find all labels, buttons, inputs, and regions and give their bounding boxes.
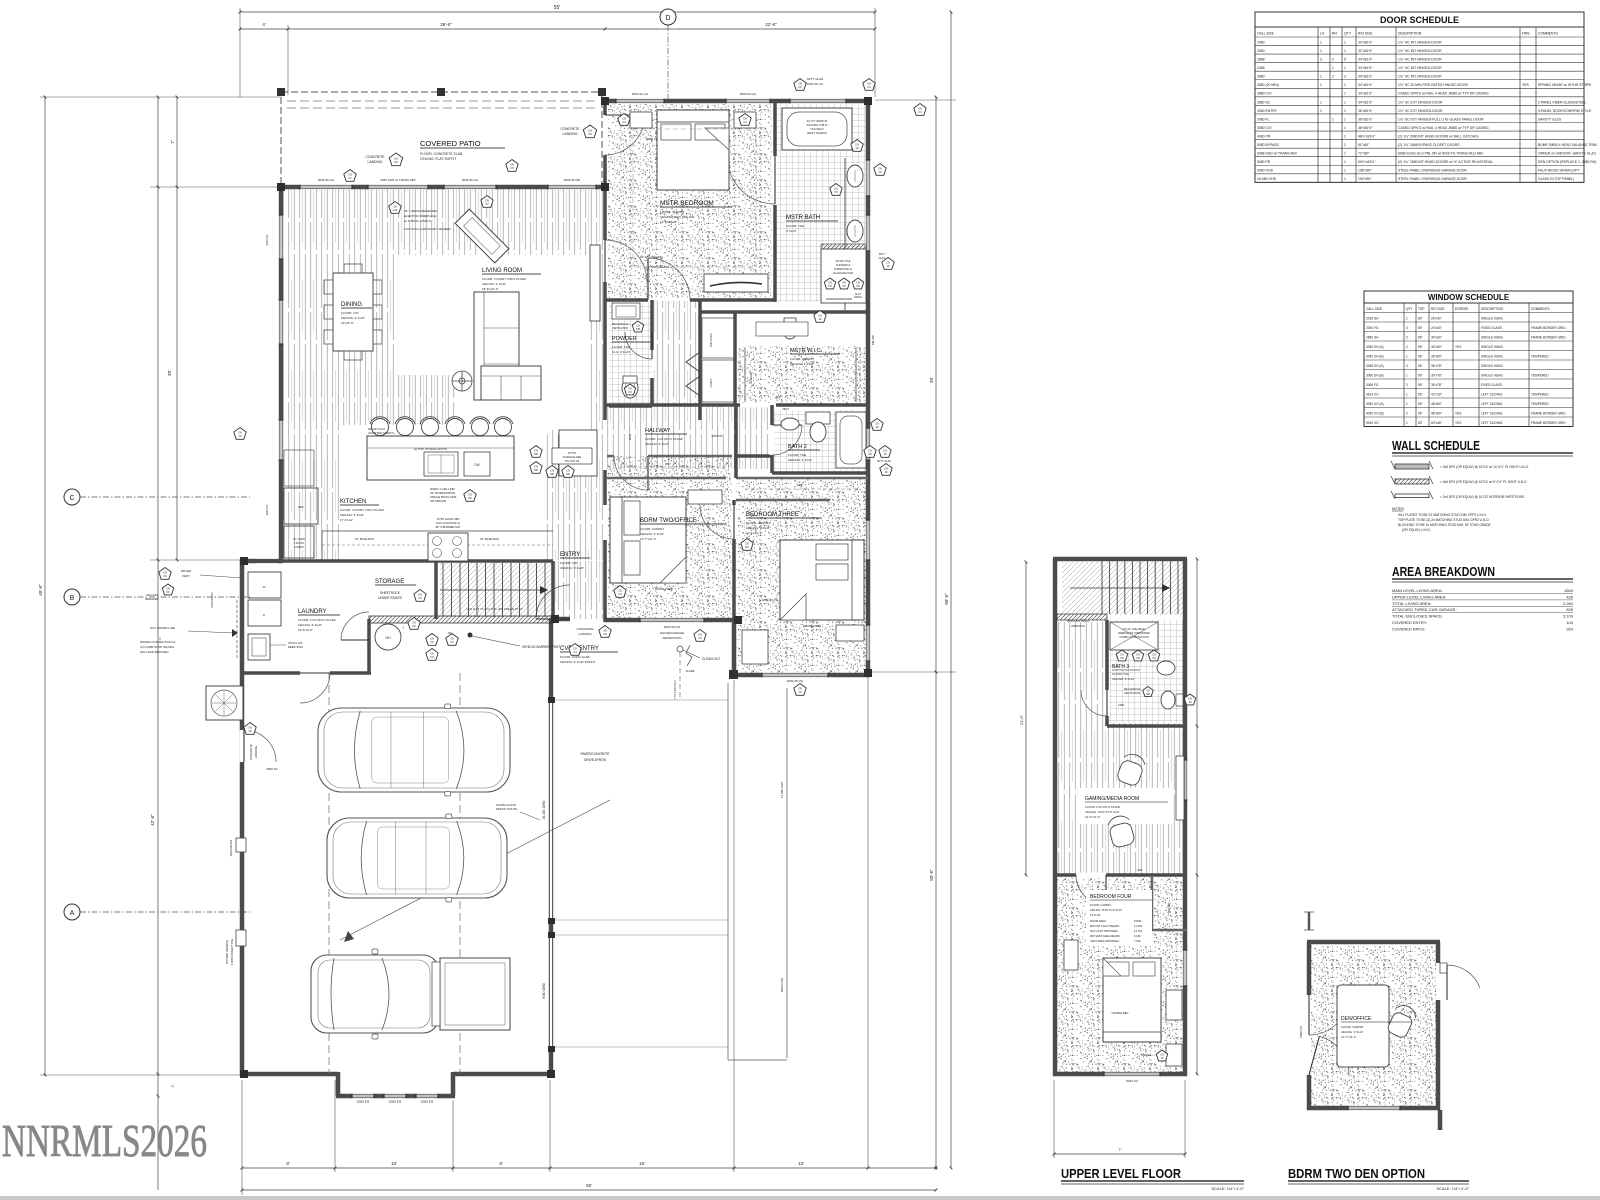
svg-text:1: 1 — [1344, 66, 1346, 70]
svg-text:80": 80" — [1418, 421, 1423, 425]
svg-text:SINGLE HUNG: SINGLE HUNG — [1481, 364, 1503, 368]
svg-text:13'-6"x6'-6": 13'-6"x6'-6" — [298, 628, 313, 632]
svg-text:EGRESS: EGRESS — [1455, 307, 1468, 311]
wall corner blocks — [240, 97, 872, 1078]
svg-text:5: 5 — [1344, 58, 1346, 62]
svg-text:MIN VENT AREA REQRD:: MIN VENT AREA REQRD: — [1090, 934, 1121, 938]
svg-text:FLOOR: TILE: FLOOR: TILE — [786, 224, 804, 228]
svg-text:LEFT SLIDING: LEFT SLIDING — [1481, 421, 1503, 425]
door powder corridor — [625, 332, 652, 359]
svg-text:FLOOR: CARPET: FLOOR: CARPET — [660, 210, 684, 214]
svg-text:UNDER STAIRS: UNDER STAIRS — [378, 596, 402, 600]
svg-text:32"x81½": 32"x81½" — [1358, 49, 1373, 53]
svg-text:1: 1 — [1406, 393, 1408, 397]
pvc water line — [150, 626, 238, 637]
interior wall: bath2 west x=772 — [770, 405, 774, 473]
svg-text:PER RC ROUTE: PER RC ROUTE — [496, 807, 517, 811]
svg-text:LIVING ROOM: LIVING ROOM — [482, 268, 522, 274]
svg-text:HOUSE/GARAGE: HOUSE/GARAGE — [660, 631, 684, 635]
dimension lines top — [239, 5, 877, 97]
svg-text:1¾" SC EXT HINGED-DOOR: 1¾" SC EXT HINGED-DOOR — [1398, 100, 1443, 104]
svg-text:SINGLE HUNG: SINGLE HUNG — [1481, 336, 1503, 340]
svg-text:96": 96" — [1418, 336, 1423, 340]
svg-text:SHOWER &: SHOWER & — [836, 263, 850, 267]
upper level: stair wall — [1057, 614, 1107, 620]
svg-text:CASED OPN'G w/ RAIL 4 HEAD JMB: CASED OPN'G w/ RAIL 4 HEAD JMBS w/ TYP D… — [1398, 92, 1489, 96]
windows 2020 FG bump-out — [352, 1094, 374, 1099]
svg-text:FRAME BORDER GRID: FRAME BORDER GRID — [1531, 336, 1566, 340]
svg-text:VNTD HOOD ABV: VNTD HOOD ABV — [436, 517, 459, 521]
svg-text:SCALE: 1/4"=1'-0": SCALE: 1/4"=1'-0" — [1211, 1186, 1244, 1191]
svg-text:3050: 3050 — [628, 433, 632, 440]
svg-text:GAS COOKTOP w/: GAS COOKTOP w/ — [436, 521, 460, 525]
upper level: exterior walls — [1053, 559, 1187, 1076]
svg-text:3066 SH (A): 3066 SH (A) — [318, 178, 335, 182]
svg-text:ORDER w/ UNDOOR -SAFETY GLZG: ORDER w/ UNDOOR -SAFETY GLZG — [1538, 152, 1596, 156]
den option: label — [1341, 1016, 1411, 1039]
svg-text:21'-6": 21'-6" — [1019, 714, 1024, 725]
svg-text:5068 SHP: 5068 SHP — [1168, 902, 1171, 913]
mstr wc label — [790, 348, 840, 366]
svg-text:CN: CN — [856, 281, 860, 285]
bedroom3 bed — [780, 540, 864, 628]
svg-text:FRAME BORDER GRID: FRAME BORDER GRID — [1531, 326, 1566, 330]
svg-text:1: 1 — [1344, 109, 1346, 113]
svg-text:CN: CN — [588, 129, 592, 133]
svg-text:BEDROOM FOUR: BEDROOM FOUR — [1090, 894, 1132, 900]
svg-text:CALL SIZE: CALL SIZE — [1366, 307, 1382, 311]
bath3 toilet — [1161, 691, 1196, 709]
master ceiling break dashes — [633, 129, 756, 267]
svg-text:1849: 1849 — [1564, 588, 1574, 593]
svg-text:CN: CN — [238, 431, 242, 435]
svg-text:CLG&B: CLG&B — [686, 669, 695, 673]
svg-text:8': 8' — [286, 1161, 290, 1166]
svg-text:(2) POP UP WALL RCPTS: (2) POP UP WALL RCPTS — [414, 447, 447, 451]
bedroom3 west wall x=736 — [734, 405, 738, 478]
car 2 (suv middle) — [327, 814, 507, 902]
svg-text:1: 1 — [1344, 152, 1346, 156]
svg-text:104: 104 — [1566, 620, 1573, 625]
svg-text:COVERED ENTRY:: COVERED ENTRY: — [1392, 620, 1427, 625]
svg-text:LEFT SLIDING: LEFT SLIDING — [1481, 402, 1503, 406]
svg-text:HALLWAY: HALLWAY — [645, 428, 671, 434]
svg-text:FLOOR: TILE: FLOOR: TILE — [612, 345, 630, 349]
svg-text:4" TO A AND WLD: 4" TO A AND WLD — [674, 680, 677, 700]
svg-text:CN: CN — [798, 687, 802, 691]
keynote pentagons scattered — [234, 77, 926, 695]
svg-text:36"x81½": 36"x81½" — [1358, 117, 1373, 121]
svg-text:6.1SF: 6.1SF — [1134, 934, 1141, 938]
interior wall: hall north y=405 — [605, 403, 868, 407]
corridor/closet wall x=700 — [698, 300, 702, 420]
svg-text:FLOOR: CARPET: FLOOR: CARPET — [746, 521, 770, 525]
svg-text:CN: CN — [393, 205, 397, 209]
svg-text:DOOR SCHEDULE: DOOR SCHEDULE — [1380, 15, 1459, 25]
svg-text:FAUX WOOD GRAIN (OPT: FAUX WOOD GRAIN (OPT — [1538, 169, 1579, 173]
svg-text:CN: CN — [248, 726, 252, 730]
svg-text:FRAME BORDER GRID: FRAME BORDER GRID — [1531, 412, 1566, 416]
svg-text:(3) CURB STOP VALVES: (3) CURB STOP VALVES — [140, 645, 174, 649]
svg-text:FIRE: FIRE — [1522, 32, 1530, 36]
svg-text:PVC WATER LINE: PVC WATER LINE — [150, 626, 175, 630]
svg-text:CN: CN — [534, 465, 538, 469]
interior wall: bath2 south y=473 — [772, 471, 868, 475]
water line vertical — [236, 600, 238, 660]
svg-text:CN: CN — [1120, 653, 1124, 657]
svg-text:CEILING: 8' FLAT: CEILING: 8' FLAT — [1112, 677, 1135, 681]
svg-text:POWDER: POWDER — [612, 336, 637, 342]
svg-text:W: W — [263, 585, 266, 589]
svg-text:9080 OHD: 9080 OHD — [780, 977, 784, 992]
svg-text:CN: CN — [468, 493, 472, 497]
dishwasher — [464, 452, 490, 476]
svg-text:34"x81½": 34"x81½" — [1358, 58, 1373, 62]
svg-text:CEILING: 9' FLAT: CEILING: 9' FLAT — [645, 442, 669, 446]
svg-text:DEN/OFFICE: DEN/OFFICE — [1341, 1016, 1372, 1022]
svg-text:96": 96" — [1418, 393, 1423, 397]
svg-text:A: A — [70, 910, 75, 917]
svg-text:M6: M6 — [550, 472, 554, 476]
svg-text:CN: CN — [1160, 1053, 1164, 1057]
svg-text:14'-6"x15'-6": 14'-6"x15'-6" — [660, 220, 677, 224]
svg-text:2,284: 2,284 — [1563, 601, 1574, 606]
interior wall: bath west x=775 — [773, 101, 777, 302]
gaming credenza — [1176, 756, 1184, 820]
svg-text:YES: YES — [1455, 345, 1461, 349]
upper level title — [1061, 1166, 1245, 1191]
door opening garage west landing — [240, 730, 245, 762]
svg-text:COVERED PATIO:: COVERED PATIO: — [1392, 626, 1425, 631]
bdrm2 label — [640, 518, 726, 541]
bedroom4 label — [1086, 890, 1152, 946]
svg-text:CN: CN — [878, 167, 882, 171]
svg-text:CN: CN — [573, 647, 577, 651]
paver concrete drive apron — [554, 683, 787, 1060]
exterior wall: laundry north — [242, 559, 283, 564]
svg-text:D9: D9 — [868, 452, 872, 456]
svg-text:M8: M8 — [1146, 692, 1150, 696]
svg-text:3050 SH (A): 3050 SH (A) — [632, 92, 649, 96]
svg-text:5080 PR: 5080 PR — [1299, 1025, 1303, 1038]
svg-text:8': 8' — [499, 1161, 503, 1166]
svg-text:C3: C3 — [867, 85, 871, 89]
upper level: bath3 walls — [1081, 620, 1187, 726]
dining table — [324, 264, 382, 360]
svg-text:GAS METER: GAS METER — [229, 840, 233, 856]
svg-text:M8: M8 — [636, 327, 640, 331]
laundry room label — [298, 609, 340, 632]
svg-text:SHEETROCK: SHEETROCK — [380, 591, 401, 595]
bedroom three carpet — [736, 478, 866, 673]
svg-text:SILL PLATES TO BE 2X MATCHING: SILL PLATES TO BE 2X MATCHING STUD DIM, … — [1398, 513, 1487, 517]
svg-text:1¾" HC INT HINGED-DOOR: 1¾" HC INT HINGED-DOOR — [1398, 49, 1442, 53]
svg-text:ENTRY: ENTRY — [560, 552, 580, 558]
covered patio label — [420, 139, 505, 161]
svg-text:CN: CN — [550, 469, 554, 473]
porch post — [729, 670, 738, 679]
dress keynote — [1142, 1050, 1168, 1061]
window schedule table — [1364, 291, 1573, 427]
svg-text:MSTR BEDROOM: MSTR BEDROOM — [660, 200, 714, 207]
gas meter — [229, 838, 246, 856]
window 3066 SH front wall 3 — [548, 185, 596, 190]
svg-text:C3: C3 — [918, 110, 922, 114]
svg-text:3066 FG: 3066 FG — [1366, 383, 1379, 387]
svg-text:2030 SH: 2030 SH — [1366, 317, 1379, 321]
svg-text:SURROUND w/: SURROUND w/ — [834, 267, 853, 271]
kitchen island — [367, 436, 514, 480]
svg-text:FLOOR: LUXURY VINYL PLANK: FLOOR: LUXURY VINYL PLANK — [340, 508, 384, 512]
svg-text:(2) 1¾" 2680 INT HNGD-DOORS w/: (2) 1¾" 2680 INT HNGD-DOORS w/ ½" ACTIVE… — [1398, 160, 1493, 164]
corridor planks by powder — [654, 301, 700, 406]
svg-text:2: 2 — [1406, 336, 1408, 340]
svg-text:FLOOR: LUX VINYL PLANK: FLOOR: LUX VINYL PLANK — [645, 437, 683, 441]
svg-text:1: 1 — [1406, 355, 1408, 359]
svg-text:SEPARATION: SEPARATION — [663, 636, 682, 640]
svg-text:DRAIN: DRAIN — [854, 296, 862, 299]
svg-text:2020 FG: 2020 FG — [389, 1100, 402, 1104]
svg-text:1¾" SC EXT HINGED-FULL LITE GL: 1¾" SC EXT HINGED-FULL LITE GLASS PANEL … — [1398, 117, 1484, 121]
concrete landing labels top — [365, 125, 596, 166]
svg-text:CN: CN — [883, 449, 887, 453]
wall: laundry south — [242, 671, 371, 675]
svg-text:SOAKING TUB IN: SOAKING TUB IN — [807, 123, 828, 127]
water connection note — [140, 637, 175, 654]
svg-text:CONCRETE: CONCRETE — [577, 627, 594, 631]
sofa horizontal — [481, 366, 541, 400]
svg-text:3050 FL: 3050 FL — [646, 137, 657, 141]
svg-text:TEMPERED: TEMPERED — [1531, 355, 1549, 359]
living room label — [482, 268, 541, 291]
gaming room label — [1085, 796, 1168, 819]
svg-text:CN: CN — [834, 187, 838, 191]
sheet bottom edge band — [0, 1196, 1600, 1200]
garage door jamb blocks — [548, 697, 555, 1052]
svg-text:3080 ENTRY: 3080 ENTRY — [1257, 109, 1278, 113]
svg-text:1¾" HC INT HINGED-DOOR: 1¾" HC INT HINGED-DOOR — [1398, 40, 1442, 44]
svg-text:1: 1 — [1332, 66, 1334, 70]
window west 3066 FG 1 — [279, 215, 284, 259]
den option: chair — [1385, 1002, 1418, 1040]
svg-text:CN: CN — [855, 143, 859, 147]
svg-text:50'-6": 50'-6" — [929, 869, 934, 881]
svg-text:P8: P8 — [468, 496, 472, 500]
svg-text:1: 1 — [1320, 75, 1322, 79]
bath toilet — [783, 318, 797, 339]
entry south wall + front door — [536, 585, 607, 619]
den option: double doors 5080 PR — [1299, 995, 1349, 1075]
svg-text:3614 XO: 3614 XO — [1366, 393, 1379, 397]
small dim labels inside plan — [265, 235, 875, 516]
wall symbol 1: 2x6 exterior — [1391, 461, 1529, 469]
house/garage separation note — [660, 630, 706, 674]
dimension lines right — [868, 11, 956, 1170]
stair treads hatch — [440, 563, 553, 617]
svg-text:WH: WH — [385, 636, 391, 640]
two car garage label — [377, 849, 460, 868]
svg-text:2468: 2468 — [1118, 703, 1124, 707]
garage south bump-out — [336, 1072, 341, 1096]
window bdrm2 south 4050 XD — [640, 618, 704, 623]
svg-text:DOUBLE BED: DOUBLE BED — [803, 624, 821, 628]
svg-text:FIBERGLASS TUB/SHOWER: FIBERGLASS TUB/SHOWER — [1118, 632, 1150, 635]
window 3066 SH front wall 2 — [444, 185, 496, 190]
svg-text:1: 1 — [1344, 177, 1346, 181]
den option: carpet — [1311, 946, 1436, 1106]
interior wall: powder east x=652 — [650, 300, 654, 350]
den option: wall stubs — [1304, 912, 1440, 1130]
svg-text:M6: M6 — [534, 452, 538, 456]
svg-text:QTY: QTY — [1344, 32, 1352, 36]
svg-text:CN: CN — [868, 449, 872, 453]
door 3050 FL from patio — [605, 115, 645, 155]
bedroom3 closet — [736, 478, 868, 500]
mstr bath label — [786, 215, 838, 233]
svg-text:YES: YES — [1522, 83, 1530, 87]
svg-text:CN: CN — [618, 589, 622, 593]
window bedroom3 south 4050 XD — [762, 673, 828, 678]
window west 2050 FG — [279, 420, 284, 460]
shower — [821, 244, 866, 303]
svg-text:M6: M6 — [566, 472, 570, 476]
wic closets linen — [702, 318, 734, 402]
keynotes near wh — [408, 618, 420, 630]
svg-text:2': 2' — [170, 1084, 175, 1087]
svg-text:TEMPERED: TEMPERED — [1531, 393, 1549, 397]
svg-text:1: 1 — [1344, 92, 1346, 96]
svg-text:3,109: 3,109 — [1563, 614, 1574, 619]
svg-text:3066 SH (A): 3066 SH (A) — [462, 178, 479, 182]
svg-text:OR SIMILAR: OR SIMILAR — [430, 499, 446, 503]
svg-text:GLASS ENCLSR: GLASS ENCLSR — [833, 271, 853, 275]
svg-text:1¾" HC INT HINGED-DOOR: 1¾" HC INT HINGED-DOOR — [1398, 75, 1442, 79]
master bedroom carpet — [608, 104, 772, 298]
svg-text:MAIN LEVEL LIVING AREA:: MAIN LEVEL LIVING AREA: — [1392, 588, 1443, 593]
svg-text:1: 1 — [1406, 421, 1408, 425]
svg-text:CEILING: TRAY CEILING: CEILING: TRAY CEILING — [660, 215, 695, 219]
svg-text:3050 SH (B): 3050 SH (B) — [1366, 355, 1384, 359]
storage label — [375, 579, 426, 601]
bedroom3 label — [746, 512, 822, 535]
svg-text:FURNACE SEE: FURNACE SEE — [563, 455, 582, 459]
svg-text:1¾" HC INT HINGED-DOOR: 1¾" HC INT HINGED-DOOR — [1398, 66, 1442, 70]
svg-text:CN: CN — [798, 82, 802, 86]
svg-text:SINGLE HUNG: SINGLE HUNG — [1481, 345, 1503, 349]
svg-text:34"x81½": 34"x81½" — [1358, 92, 1373, 96]
svg-text:VEHICLE BARRIER POST: VEHICLE BARRIER POST — [522, 645, 560, 649]
dryer — [248, 600, 281, 626]
svg-text:435: 435 — [1566, 594, 1573, 599]
svg-text:MIN NAT LIGHT REQRD:: MIN NAT LIGHT REQRD: — [1090, 924, 1120, 928]
svg-text:QTY: QTY — [1406, 307, 1413, 311]
wall schedule notes — [1392, 507, 1491, 532]
svg-text:4080 PR: 4080 PR — [1257, 134, 1271, 138]
svg-text:CN: CN — [348, 173, 352, 177]
entry plank floor — [553, 561, 605, 619]
powder label — [612, 336, 650, 354]
svg-text:6068 SGD w/ TRANS ABV: 6068 SGD w/ TRANS ABV — [1257, 152, 1298, 156]
svg-text:96": 96" — [1418, 364, 1423, 368]
hallway label — [645, 428, 687, 446]
svg-text:12.2SF: 12.2SF — [1134, 924, 1143, 928]
svg-text:IRRIGATION: IRRIGATION — [210, 592, 214, 607]
svg-text:5080 BYPASS: 5080 BYPASS — [1257, 143, 1280, 147]
exterior wall: front (living) — [281, 185, 605, 190]
svg-text:LANDING: LANDING — [562, 132, 577, 136]
bdrm2 dresser — [688, 490, 722, 504]
garage door opening 16-080 OHD — [549, 700, 554, 920]
svg-text:CN: CN — [412, 621, 416, 625]
svg-text:16-080 OHD: 16-080 OHD — [542, 800, 546, 820]
svg-text:R/O SIZE: R/O SIZE — [1431, 307, 1445, 311]
svg-text:96": 96" — [1418, 374, 1423, 378]
master bath tile — [777, 104, 866, 302]
svg-text:MECHANICAL: MECHANICAL — [1124, 687, 1142, 691]
svg-text:3050 SC: 3050 SC — [266, 767, 279, 771]
living/dining/kitchen plank floor — [283, 189, 603, 560]
svg-text:GAMING/MEDIA ROOM: GAMING/MEDIA ROOM — [1085, 796, 1139, 802]
svg-text:42'-6": 42'-6" — [150, 814, 155, 826]
svg-text:CN: CN — [1152, 653, 1156, 657]
svg-text:36"x60": 36"x60" — [1431, 345, 1442, 349]
svg-text:FLOOR: CARPET: FLOOR: CARPET — [1090, 903, 1111, 907]
laundry door arc — [341, 612, 369, 640]
den option: window bottom — [1348, 1106, 1400, 1111]
svg-text:34"x81½": 34"x81½" — [1358, 100, 1373, 104]
svg-text:COMMENTS: COMMENTS — [1531, 307, 1550, 311]
window 4050 XO (A) tub — [790, 99, 846, 104]
window labels top — [318, 92, 804, 683]
svg-text:34"x81½": 34"x81½" — [1358, 75, 1373, 79]
svg-text:C7: C7 — [348, 176, 352, 180]
svg-text:34"x60": 34"x60" — [1431, 336, 1442, 340]
svg-text:BATH 2: BATH 2 — [788, 444, 807, 450]
svg-text:CALL SIZE: CALL SIZE — [1257, 32, 1275, 36]
svg-text:42"x84" TILE: 42"x84" TILE — [835, 259, 850, 263]
bath3 shower — [1110, 622, 1158, 650]
car 3 (pickup truck) — [311, 949, 510, 1039]
svg-text:(OR EQUIV.) U.N.O.: (OR EQUIV.) U.N.O. — [1402, 528, 1431, 532]
svg-text:BREAKER: BREAKER — [145, 597, 158, 601]
svg-text:C4: C4 — [573, 650, 577, 654]
svg-text:36"x78": 36"x78" — [1431, 364, 1442, 368]
door laundry to garage — [300, 671, 330, 676]
svg-text:C8: C8 — [510, 166, 514, 170]
door master bath — [727, 156, 775, 204]
exterior wall: garage south — [242, 1072, 338, 1077]
svg-text:CEILING: 9' FLAT: CEILING: 9' FLAT — [341, 316, 365, 320]
svg-text:DRYER: DRYER — [181, 569, 192, 573]
svg-text:RH: RH — [1332, 32, 1337, 36]
svg-text:DEEP SINK: DEEP SINK — [288, 645, 303, 649]
svg-text:36"x78": 36"x78" — [1431, 383, 1442, 387]
svg-text:ATTACHED THREE-CAR GARAGE:: ATTACHED THREE-CAR GARAGE: — [1392, 607, 1457, 612]
svg-text:OPENING: OPENING — [1071, 624, 1086, 628]
svg-text:COUNTER (VERIFY): COUNTER (VERIFY) — [368, 431, 395, 435]
storage/stair walls — [436, 561, 553, 619]
svg-text:CN: CN — [510, 163, 514, 167]
interior wall: closet strip x=735 — [733, 312, 737, 405]
svg-text:FLOOR: LUX VINYL PLANK: FLOOR: LUX VINYL PLANK — [298, 618, 336, 622]
svg-text:REF: REF — [298, 505, 304, 509]
svg-text:1: 1 — [1344, 83, 1346, 87]
svg-text:26'-6": 26'-6" — [440, 22, 452, 27]
svg-text:CN: CN — [394, 157, 398, 161]
bedroom4 dressers — [1064, 940, 1078, 970]
svg-text:BATH 3: BATH 3 — [1112, 664, 1129, 670]
vehicle barrier post — [448, 631, 581, 655]
